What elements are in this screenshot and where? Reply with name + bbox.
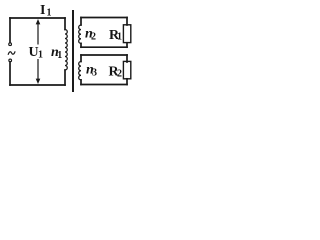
AC source terminal (lower circle) (9, 59, 12, 62)
svg-text:2: 2 (91, 31, 96, 42)
wire: secondary coil n2 top stub (80, 18, 82, 26)
svg-text:1: 1 (117, 32, 122, 43)
wire: secondary coil n2 bottom stub (80, 43, 82, 47)
wire: secondary coil n3 bottom stub (80, 80, 82, 85)
wire: secondary loop 2 top (81, 54, 127, 56)
inductor winding n3 (secondary coil 2) (79, 62, 81, 80)
svg-text:2: 2 (117, 68, 122, 79)
wire: primary loop left upper segment (9, 18, 11, 42)
transformer core (72, 11, 74, 91)
AC source tilde symbol (8, 52, 15, 54)
svg-text:I: I (40, 3, 45, 18)
voltage arrow U1 (double-headed) shaft (37, 23, 39, 80)
wire: secondary coil n3 top stub (80, 55, 82, 62)
wire: primary loop left lower segment (9, 62, 11, 85)
wire: secondary loop 1 top (81, 17, 127, 19)
wire: secondary loop 1 right lower stub (126, 43, 128, 47)
wire: primary loop right lower segment (64, 70, 66, 85)
svg-text:1: 1 (38, 49, 43, 60)
resistor R2 body (123, 61, 130, 78)
AC source terminal (upper circle) (9, 43, 12, 46)
wire: primary loop bottom (10, 84, 65, 86)
voltage arrow U1 upper arrowhead (36, 19, 41, 24)
label U1 (primary voltage) background (29, 45, 43, 58)
wire: secondary loop 2 right lower stub (126, 79, 128, 85)
inductor winding n1 (primary coil) (65, 30, 67, 71)
inductor winding n2 (secondary coil 1) (79, 25, 81, 43)
wire: secondary loop 2 bottom (81, 84, 127, 86)
wire: primary loop right upper segment (64, 18, 66, 30)
wire: primary loop top (10, 17, 65, 19)
wire: secondary loop 1 right upper stub (126, 18, 128, 26)
resistor R1 body (123, 25, 130, 43)
svg-text:1: 1 (47, 7, 52, 18)
wire: secondary loop 1 bottom (81, 46, 127, 48)
svg-text:3: 3 (92, 68, 97, 79)
svg-text:1: 1 (57, 50, 62, 61)
wire: secondary loop 2 right upper stub (126, 55, 128, 62)
voltage arrow U1 lower arrowhead (36, 79, 41, 84)
